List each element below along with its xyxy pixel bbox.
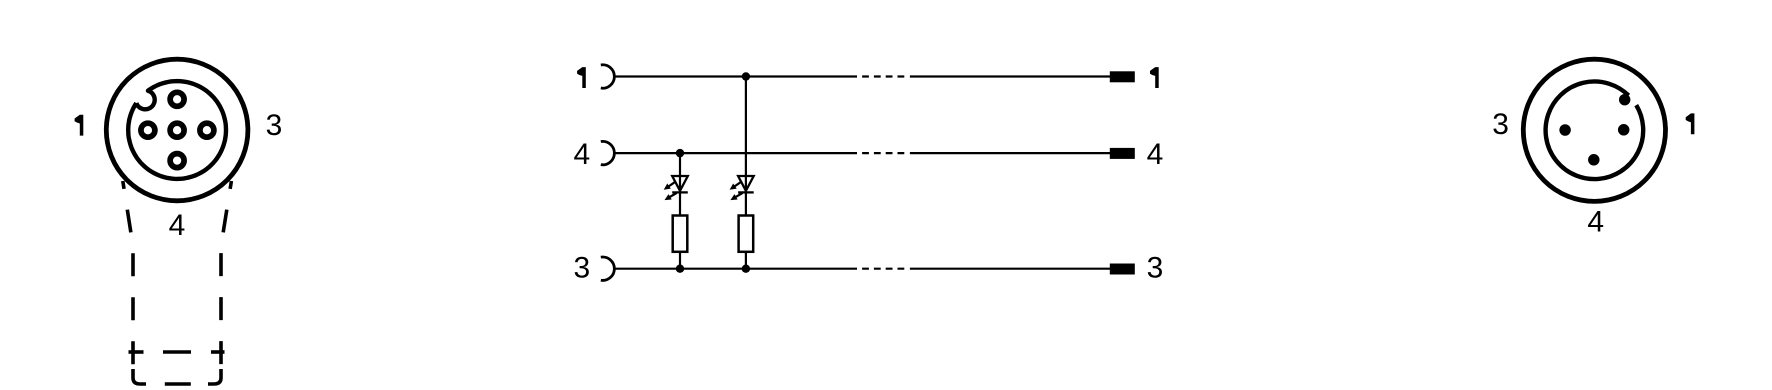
left branch wire (vertical) (679, 153, 681, 269)
left connector top hole (170, 92, 184, 106)
junction dot on wire 1 (742, 72, 750, 80)
LED D2 triangle (738, 176, 754, 191)
svg-text:3: 3 (266, 109, 283, 142)
left terminal label 1 (577, 67, 586, 88)
right connector keyway pin (1619, 94, 1630, 105)
right terminal label 1 (1150, 67, 1159, 88)
wire 3 solid right segment (910, 268, 1110, 270)
left connector outer ring (106, 59, 248, 201)
LED D2 cathode bar (738, 191, 754, 193)
LED D2 light arrows (730, 181, 743, 200)
junction dot right on wire 3 (742, 265, 750, 273)
right connector outer ring (1523, 59, 1665, 201)
wire 3 dashed middle segment (862, 268, 905, 270)
right connector pin 4 dot (1588, 154, 1600, 166)
LED D1 light arrows (664, 181, 677, 200)
left connector right hole (200, 123, 214, 137)
left connector body bottom-right corner (208, 369, 221, 384)
wire 1 solid right segment (910, 75, 1110, 77)
right connector inner ring (with keyway gap) (1546, 81, 1644, 179)
resistor R2 (739, 216, 754, 252)
wire 4 solid right segment (910, 152, 1110, 154)
resistor R1 (673, 216, 688, 252)
svg-text:3: 3 (573, 252, 590, 285)
wire 1 solid left segment (614, 75, 857, 77)
wire 4 dashed middle segment (862, 152, 905, 154)
junction dot left on wire 3 (676, 265, 684, 273)
socket terminal 3 (arc) (601, 257, 615, 280)
socket terminal 4 (arc) (601, 141, 615, 164)
svg-text:4: 4 (1147, 138, 1164, 171)
svg-text:3: 3 (1147, 252, 1164, 285)
left connector inner ring with keyway notch (128, 81, 226, 179)
left connector bottom hole (170, 154, 184, 168)
left connector left hole (141, 123, 155, 137)
junction dot on wire 4 (676, 149, 684, 157)
svg-text:4: 4 (1587, 206, 1604, 239)
left connector cap line dashes (129, 350, 225, 354)
svg-text:4: 4 (573, 138, 590, 171)
LED D1 cathode bar (672, 191, 688, 193)
right terminal block 1 (1110, 71, 1135, 82)
right terminal block 4 (1110, 148, 1135, 159)
left connector body bottom dash (165, 382, 191, 386)
wire 1 dashed middle segment (862, 75, 905, 77)
svg-text:4: 4 (169, 209, 186, 242)
LED D1 triangle (672, 176, 688, 191)
socket terminal 1 (arc) (601, 65, 615, 88)
left connector center hole (170, 123, 184, 137)
svg-text:3: 3 (1492, 108, 1509, 141)
wire 3 solid left segment (614, 268, 857, 270)
left connector pin label 1 (75, 115, 84, 136)
left connector body right edge (dashed) (221, 181, 231, 377)
right connector pin label 1 (1686, 113, 1695, 134)
right terminal block 3 (1110, 264, 1135, 275)
left connector body bottom-left corner (133, 369, 146, 384)
right connector pin 1 dot (1618, 124, 1630, 136)
right connector pin 3 dot (1559, 124, 1571, 136)
right branch wire (vertical) (745, 77, 747, 269)
left connector body left edge (dashed) (123, 181, 133, 377)
wire 4 solid left segment (614, 152, 857, 154)
